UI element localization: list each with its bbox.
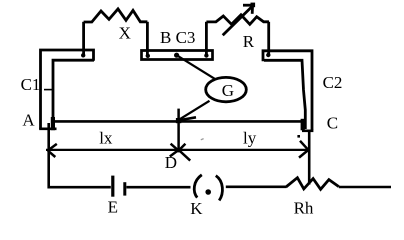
key K — [194, 175, 222, 201]
node B dot — [174, 53, 179, 58]
wire A down and along bottom — [49, 123, 111, 187]
svg-text:ly: ly — [243, 129, 257, 148]
slide wire A to C — [54, 120, 302, 123]
svg-text:X: X — [119, 24, 131, 43]
copper strip C1 (left L-shaped strip) — [39, 50, 94, 129]
ink speck near D — [201, 139, 204, 140]
svg-text:C1: C1 — [21, 75, 41, 94]
wire B to galvanometer — [177, 55, 215, 78]
svg-text:R: R — [243, 32, 255, 51]
svg-text:K: K — [190, 199, 203, 218]
dimension line ly — [179, 141, 308, 161]
copper strip C2 (right L-shaped strip) — [263, 51, 313, 131]
svg-text:C: C — [327, 113, 338, 132]
terminal C — [297, 119, 304, 138]
rheostat Rh — [286, 178, 339, 190]
jockey contact D marker — [177, 109, 180, 153]
wire Rh to right end — [339, 186, 391, 189]
svg-text:G: G — [222, 81, 234, 100]
svg-text:C2: C2 — [323, 73, 343, 92]
resistor X — [81, 9, 150, 58]
wire K to Rh — [226, 186, 286, 189]
svg-text:A: A — [22, 110, 35, 129]
C1 pointer tick — [44, 89, 53, 91]
svg-text:Rh: Rh — [294, 198, 314, 217]
wire G to jockey D (arrow) — [176, 101, 210, 123]
copper strip C3 (middle strip) — [142, 51, 213, 60]
svg-text:lx: lx — [99, 129, 113, 148]
variable resistor R — [204, 3, 270, 58]
svg-text:B C3: B C3 — [160, 28, 195, 47]
wire E to K — [126, 186, 190, 189]
terminal A — [51, 117, 55, 130]
svg-text:E: E — [108, 197, 118, 216]
dimension line lx — [46, 144, 178, 157]
battery E — [113, 176, 125, 197]
wire C down to rheostat — [308, 131, 311, 185]
galvanometer U1 — [206, 77, 247, 101]
